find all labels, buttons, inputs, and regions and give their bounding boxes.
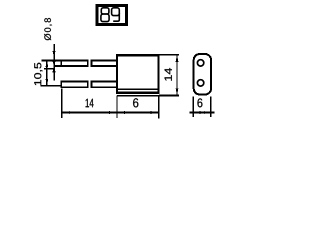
- side view obround: [194, 54, 211, 95]
- bottom lead hole: [197, 80, 203, 86]
- top lead hole: [197, 60, 203, 66]
- side view dimension 6: [190, 97, 215, 117]
- leader arrowhead above lead: [52, 51, 55, 57]
- digit 8 of badge: [101, 8, 109, 22]
- body (front view): [117, 55, 179, 95]
- marking badge "89": [97, 6, 127, 25]
- top lead: [42, 59, 118, 67]
- dimension 10,5: [34, 60, 54, 85]
- leader arrowheads (tip to tip at wire line): [52, 61, 55, 65]
- label Ø0,8 (rotated): [44, 18, 52, 40]
- leader line for Ø0,8: [53, 44, 55, 80]
- bottom dimension line (14 and 6): [62, 89, 159, 119]
- bottom lead: [40, 80, 117, 88]
- right dimension 14 (body height): [159, 55, 179, 96]
- digit 9 of badge: [112, 8, 120, 21]
